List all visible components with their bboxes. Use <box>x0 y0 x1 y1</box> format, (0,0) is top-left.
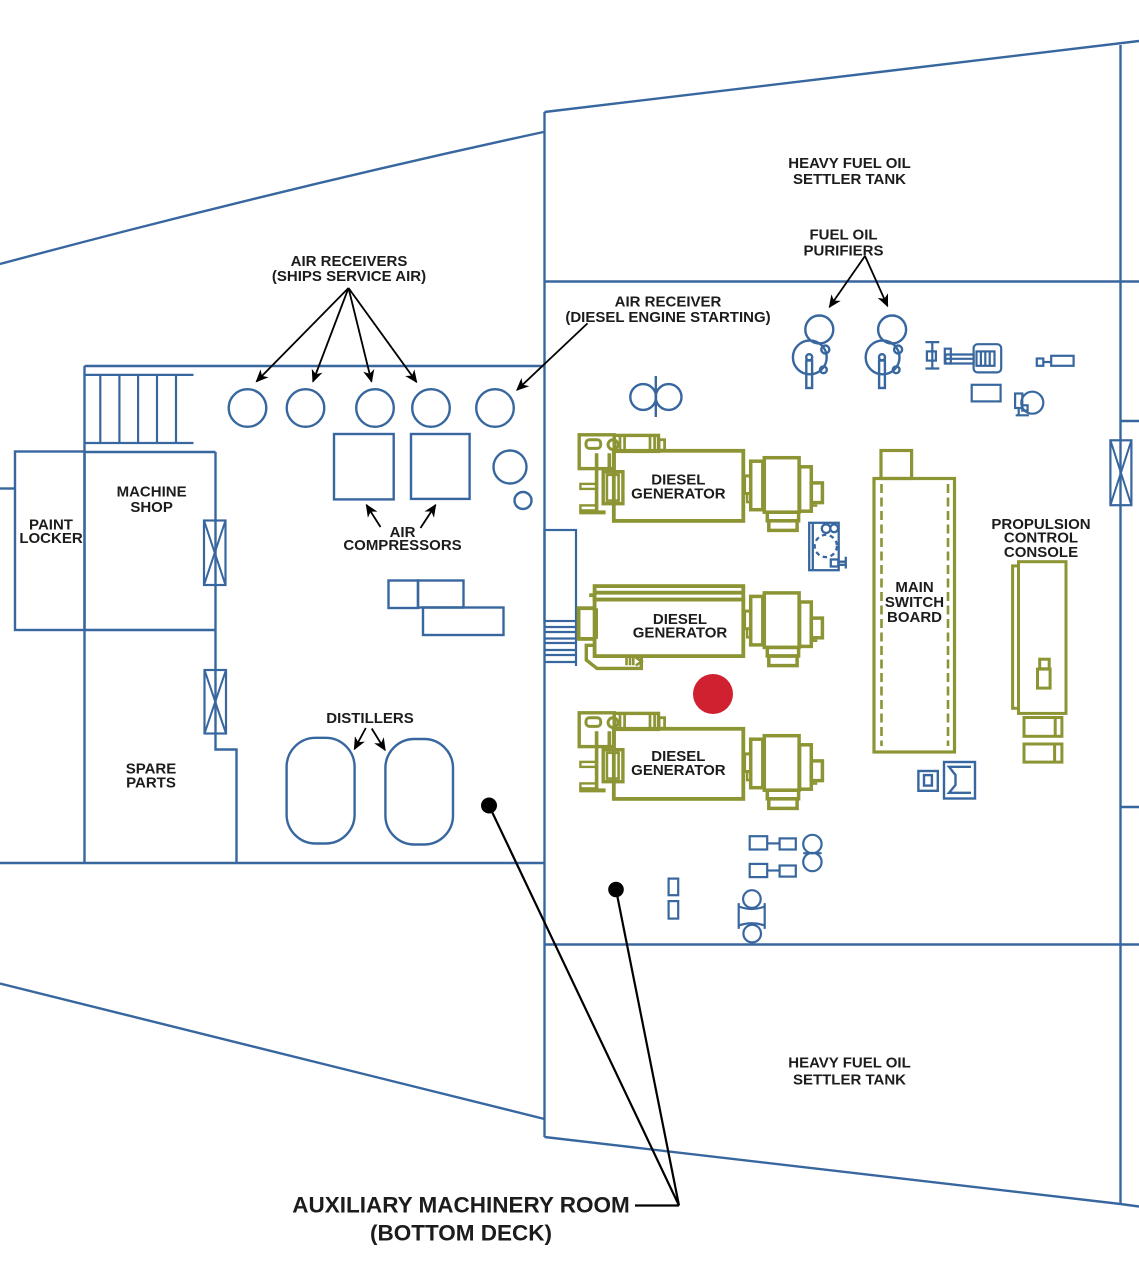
svg-text:HEAVY FUEL OIL: HEAVY FUEL OIL <box>788 155 911 172</box>
svg-text:SETTLER TANK: SETTLER TANK <box>793 171 906 188</box>
svg-text:GENERATOR: GENERATOR <box>631 762 726 779</box>
svg-text:(SHIPS SERVICE AIR): (SHIPS SERVICE AIR) <box>272 268 426 285</box>
svg-text:DISTILLERS: DISTILLERS <box>326 710 414 727</box>
svg-text:FUEL OIL: FUEL OIL <box>809 227 877 244</box>
svg-text:SHOP: SHOP <box>130 499 173 516</box>
svg-text:GENERATOR: GENERATOR <box>633 625 728 642</box>
svg-text:AIR RECEIVER: AIR RECEIVER <box>615 294 722 311</box>
svg-text:(BOTTOM DECK): (BOTTOM DECK) <box>370 1220 552 1245</box>
svg-text:GENERATOR: GENERATOR <box>631 485 726 502</box>
svg-text:COMPRESSORS: COMPRESSORS <box>343 537 461 554</box>
svg-text:HEAVY FUEL OIL: HEAVY FUEL OIL <box>788 1054 911 1071</box>
svg-text:BOARD: BOARD <box>887 609 942 626</box>
svg-text:CONSOLE: CONSOLE <box>1004 544 1078 561</box>
svg-text:SETTLER TANK: SETTLER TANK <box>793 1071 906 1088</box>
svg-text:(DIESEL ENGINE STARTING): (DIESEL ENGINE STARTING) <box>565 309 770 326</box>
svg-text:PARTS: PARTS <box>126 774 176 791</box>
svg-text:AUXILIARY MACHINERY ROOM: AUXILIARY MACHINERY ROOM <box>292 1192 630 1217</box>
svg-text:PURIFIERS: PURIFIERS <box>803 243 883 260</box>
svg-text:LOCKER: LOCKER <box>19 530 83 547</box>
svg-text:MACHINE: MACHINE <box>117 483 187 500</box>
